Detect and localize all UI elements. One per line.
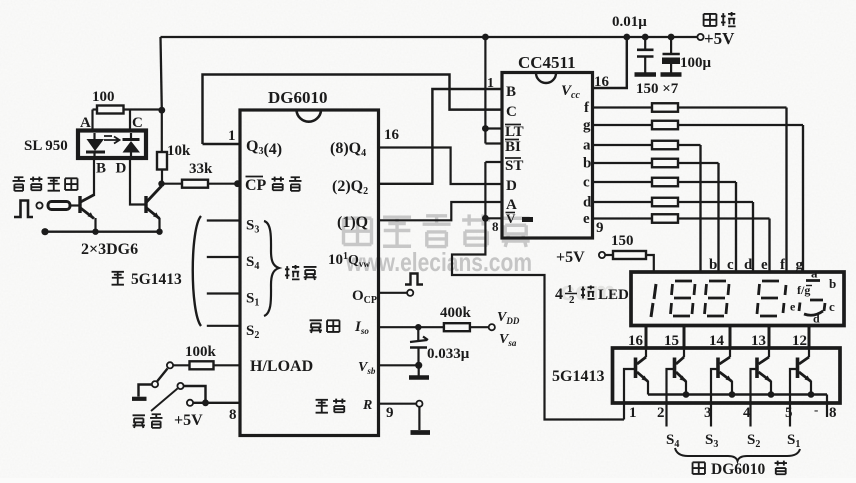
svg-text:16: 16 — [594, 74, 610, 90]
junction Iso/C — [415, 324, 421, 330]
label baochi hold — [133, 415, 145, 428]
wire S1 select line — [207, 292, 240, 294]
terminal common rail — [41, 228, 48, 235]
pulse symbol input — [14, 201, 33, 218]
svg-text:c: c — [829, 299, 835, 314]
resistor 150 a — [652, 141, 678, 150]
wire (1)Q to A — [379, 202, 503, 220]
resistor 150 b — [652, 159, 678, 168]
wire (2)Q2 to B — [379, 89, 503, 184]
junction C/10k/rail — [158, 107, 165, 114]
svg-text:SL 950: SL 950 — [24, 138, 68, 154]
svg-text:DG6010: DG6010 — [711, 461, 766, 478]
wire to T1 base — [70, 204, 80, 206]
wire e to resistor — [593, 217, 653, 219]
wire pole to ground — [139, 385, 153, 397]
IC DG6010 — [240, 110, 379, 436]
label zhendang oscillator — [310, 320, 322, 333]
resistor 150 f — [652, 103, 678, 112]
resistor 100k — [190, 361, 214, 369]
watermark: elecfans logo text — [344, 218, 372, 244]
wire base T5 from pin5 — [790, 369, 798, 427]
LED digit 8 (1) — [671, 281, 696, 316]
junction T2 emitter — [156, 229, 162, 235]
svg-text:150 ×7: 150 ×7 — [636, 81, 679, 97]
wire LED pin 12 — [808, 326, 811, 349]
wire a route — [678, 144, 701, 146]
wire a to resistor — [593, 144, 653, 146]
svg-text:5G1413: 5G1413 — [552, 368, 604, 385]
wire b down to LED — [717, 163, 719, 272]
wire D to T2 base — [130, 158, 146, 205]
svg-text:100k: 100k — [185, 344, 217, 360]
wire e route — [678, 217, 770, 219]
junction emitter — [808, 391, 815, 398]
terminal +5V hold — [187, 400, 193, 406]
resistor 150 d — [652, 198, 678, 207]
junction +5V pin8 — [202, 399, 209, 406]
ground reset — [411, 430, 431, 435]
switch lever — [157, 369, 168, 382]
wire Vsb — [379, 364, 420, 366]
label weixuan digit-select — [285, 265, 300, 279]
wire A pin — [91, 110, 93, 131]
brace left select lines — [193, 216, 201, 326]
ground switch — [132, 397, 147, 401]
junction emitter — [768, 391, 775, 398]
wire LT stub — [485, 127, 502, 129]
svg-text:-: - — [814, 402, 818, 417]
svg-text:+5V: +5V — [704, 29, 735, 48]
wire T2 emitter down — [158, 218, 160, 232]
T2 collector stroke — [147, 186, 162, 202]
svg-text:b: b — [583, 156, 591, 172]
transistor T2 5G1413 — [683, 348, 685, 357]
svg-text:2: 2 — [569, 294, 575, 306]
wire R pin — [379, 403, 417, 405]
wire LED pin 15 — [683, 326, 686, 349]
svg-text:9: 9 — [596, 220, 604, 236]
svg-text:R: R — [362, 398, 372, 413]
svg-text:+5V: +5V — [174, 412, 203, 429]
svg-text:B: B — [96, 161, 106, 177]
capacitor C2 100u — [670, 37, 672, 53]
svg-text:B: B — [506, 84, 516, 100]
svg-text:CC4511: CC4511 — [518, 53, 576, 72]
input resistor blob — [48, 202, 70, 210]
svg-text:c: c — [727, 257, 734, 273]
wire to 150 — [605, 254, 613, 256]
wire a down to LED — [699, 145, 701, 272]
svg-text:e: e — [790, 300, 796, 314]
svg-text:(8)Q4: (8)Q4 — [330, 140, 366, 159]
terminal OCP — [407, 290, 413, 296]
svg-text:b: b — [709, 257, 717, 273]
wire res100 left — [93, 108, 98, 110]
wire C node to 10k — [161, 110, 163, 152]
svg-text:8: 8 — [492, 219, 499, 234]
svg-text:d: d — [583, 195, 592, 211]
wire VSS ground run to 5G1413 — [452, 162, 624, 420]
wire S4 select line — [207, 256, 240, 258]
IC CC4511 — [502, 73, 593, 239]
wire T1 emitter down — [94, 218, 96, 232]
svg-text:a: a — [583, 138, 591, 154]
diode left (LED) — [87, 139, 105, 151]
LED digit 8 (3) partial — [757, 281, 786, 316]
svg-text:c: c — [583, 175, 590, 191]
terminal VDD/VSS — [489, 324, 495, 330]
svg-text:a: a — [811, 266, 818, 281]
switch throw hold — [177, 383, 183, 389]
wire LED pin 16 — [645, 326, 648, 349]
wire throw to +5V line — [184, 386, 206, 403]
svg-text:C: C — [506, 104, 517, 120]
svg-text:d: d — [744, 257, 753, 273]
wire +5V to LT/BI — [484, 37, 486, 144]
label qu 5G1413 — [112, 272, 124, 285]
T1 emitter stroke — [81, 208, 95, 219]
wire (8)Q4 to D — [379, 148, 503, 185]
wire 33k left — [164, 183, 182, 185]
wire f to resistor — [593, 106, 653, 108]
svg-text:DG6010: DG6010 — [268, 88, 328, 107]
junction rail/LT — [482, 34, 489, 41]
wire g down to LED — [802, 125, 804, 272]
wire g to resistor — [593, 124, 653, 126]
wire 400k right — [470, 326, 489, 328]
resistor 33k — [182, 180, 208, 188]
junction Vsb/C — [415, 362, 422, 369]
svg-text:33k: 33k — [189, 161, 213, 177]
wire e down to LED — [768, 219, 770, 273]
wire d down to LED — [752, 202, 754, 272]
junction VSS — [482, 215, 489, 222]
diode right (photodiode) — [123, 141, 141, 153]
transistor T3 5G1413 — [729, 348, 731, 357]
wire OCP — [379, 292, 408, 294]
svg-text:3: 3 — [704, 405, 712, 421]
label dianyuan power — [704, 14, 717, 26]
wire res100 right to C node — [124, 108, 162, 110]
svg-text:150: 150 — [611, 233, 634, 249]
svg-text:9: 9 — [386, 405, 394, 421]
wire c route — [678, 181, 736, 183]
junction CP pin — [234, 180, 241, 187]
svg-text:16: 16 — [384, 127, 400, 143]
wire BI stub — [485, 142, 502, 144]
wire +5V top rail — [161, 36, 699, 38]
svg-text:BI: BI — [505, 139, 521, 155]
svg-text:0.033μ: 0.033μ — [427, 346, 470, 362]
transistor T4 5G1413 — [768, 348, 770, 357]
wire rail to pin8 — [826, 395, 828, 418]
label you DG6010 lai (from DG6010) — [693, 462, 705, 474]
junction rail/Vcc — [623, 34, 630, 41]
svg-text:5G1413: 5G1413 — [131, 271, 182, 288]
svg-text:1: 1 — [228, 128, 236, 144]
wire base T1 from pin1 — [624, 369, 636, 420]
switch throw run — [167, 362, 173, 368]
wire S3 select line — [207, 219, 240, 221]
wire base T2 from pin2 — [667, 369, 675, 427]
svg-text:LT: LT — [505, 124, 524, 140]
svg-text:g: g — [583, 118, 591, 134]
transistor T5 5G1413 — [808, 348, 810, 357]
wire 10k to 33k node — [161, 170, 163, 184]
terminal +5V LED — [599, 252, 605, 258]
junction rail/C2 — [668, 34, 675, 41]
T2 emitter stroke — [147, 208, 160, 219]
ground oscillator — [409, 375, 429, 380]
wire reset to ground — [418, 407, 420, 430]
wire 100k left — [173, 364, 190, 366]
wire rail to SL950 junction — [161, 37, 162, 110]
wire LED pin 13 — [768, 326, 771, 349]
svg-text:5: 5 — [785, 405, 793, 421]
svg-text:2: 2 — [657, 405, 665, 421]
wire ST stub — [485, 161, 502, 163]
terminal pulse input — [36, 202, 42, 208]
wire emitter rail — [648, 393, 827, 395]
wire base T3 from pin3 — [711, 369, 718, 427]
terminal power +5V — [697, 34, 703, 40]
resistor 400k — [444, 323, 470, 331]
resistor 10k — [157, 152, 167, 170]
wire c down to LED — [735, 182, 737, 272]
wire Q3(4) to C input — [203, 75, 503, 145]
underbrace — [675, 448, 800, 461]
svg-text:www.elecians.com: www.elecians.com — [345, 247, 532, 277]
svg-text:(1)Q: (1)Q — [337, 214, 368, 231]
svg-text:100: 100 — [92, 89, 115, 105]
T1 collector stroke — [81, 195, 95, 203]
LED digit 5 annotated — [799, 281, 825, 316]
wire +5V to pin8 — [193, 402, 240, 404]
wire VSS stub — [485, 217, 502, 219]
svg-text:4: 4 — [555, 286, 563, 303]
wire f route — [678, 106, 787, 108]
wire Iso — [379, 326, 444, 328]
svg-text:1: 1 — [629, 405, 637, 421]
label jishumaichong counting pulse — [13, 177, 25, 191]
junction 10k/33k/T2 — [158, 181, 164, 187]
wire C pin — [129, 110, 131, 131]
svg-text:D: D — [506, 178, 517, 194]
svg-text:CP: CP — [245, 177, 267, 194]
wire 150 to LED — [646, 255, 654, 272]
capacitor C1 0.01u — [644, 37, 646, 49]
svg-text:2×3DG6: 2×3DG6 — [81, 241, 138, 258]
svg-text:4: 4 — [743, 405, 751, 421]
svg-text:ST: ST — [505, 158, 523, 174]
leader line baochi — [151, 389, 178, 412]
svg-text:0.01μ: 0.01μ — [612, 14, 647, 30]
brace right weixuan — [264, 221, 279, 316]
svg-text:8: 8 — [229, 407, 237, 423]
LED digit 8 (2) — [705, 281, 730, 316]
svg-text:1: 1 — [487, 76, 494, 91]
svg-text:g: g — [796, 257, 804, 273]
wire b to resistor — [593, 162, 653, 164]
wire d route — [678, 201, 753, 203]
junction LT — [482, 125, 489, 132]
svg-text:d: d — [813, 312, 820, 326]
resistor 150 — [613, 251, 646, 259]
transistor T1 5G1413 — [645, 348, 647, 357]
wire S2 select line — [207, 325, 240, 327]
svg-text:100μ: 100μ — [680, 55, 712, 71]
switch pole — [152, 381, 158, 387]
light arrow — [104, 136, 120, 144]
label fuling reset — [316, 400, 328, 413]
svg-text:+5V: +5V — [556, 249, 585, 266]
pulse symbol OCP — [405, 274, 423, 285]
svg-text:e: e — [761, 257, 768, 273]
wire c to resistor — [593, 181, 653, 183]
wire b route — [678, 162, 719, 164]
svg-text:e: e — [583, 211, 590, 227]
resistor 150 e — [652, 214, 678, 223]
resistor 150 c — [652, 178, 678, 187]
wire 33k to CP — [208, 183, 240, 185]
wire DG6010 pin1 stub — [203, 143, 241, 145]
LED digit 1 — [651, 284, 656, 317]
svg-text:H/LOAD: H/LOAD — [250, 358, 313, 375]
wire to ground — [418, 365, 420, 375]
IC 5G1413 — [613, 348, 841, 403]
wire 100k to H/LOAD — [214, 364, 241, 366]
wire Vcc to CC4511 pin16 — [593, 37, 627, 88]
optocoupler SL950 — [78, 131, 146, 159]
junction T1 emitter — [92, 229, 98, 235]
wire emitter common rail — [45, 230, 160, 232]
wire d to resistor — [593, 201, 653, 203]
svg-text:D: D — [116, 161, 127, 177]
capacitor 0.033u — [417, 327, 419, 340]
wire base T4 from pin4 — [751, 369, 758, 427]
transistor Q1 (3DG6) — [78, 196, 81, 213]
junction emitter — [683, 391, 690, 398]
wire f down to LED — [785, 108, 787, 273]
svg-text:LED: LED — [598, 287, 629, 303]
wire B to T1 collector — [93, 158, 95, 196]
svg-text:10k: 10k — [167, 143, 191, 159]
junction rail/C1 — [642, 34, 649, 41]
wire g route — [678, 124, 803, 126]
svg-text:8: 8 — [829, 405, 837, 421]
svg-text:400k: 400k — [440, 305, 472, 321]
LED display module — [631, 272, 844, 326]
resistor 100 — [97, 106, 124, 114]
resistor 150 g — [652, 121, 678, 130]
wire LED pin 14 — [729, 326, 732, 349]
svg-text:(2)Q2: (2)Q2 — [332, 178, 368, 197]
terminal reset — [416, 401, 422, 407]
junction emitter — [729, 391, 736, 398]
svg-text:b: b — [829, 276, 836, 291]
